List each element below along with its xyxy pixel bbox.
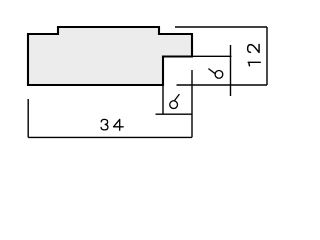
extension line left (34) <box>27 99 29 137</box>
label 34 : digit 3 <box>101 119 108 129</box>
extension line ledge (6 right) <box>193 55 232 57</box>
dimension line 34 <box>28 136 192 138</box>
extension line left (6 bottom) <box>162 86 164 114</box>
dimension line 6 right <box>230 45 232 96</box>
profile cross-section body <box>28 27 192 85</box>
dimension line 12 <box>266 27 268 85</box>
label 6 right (rotated) <box>209 69 223 78</box>
extension line top (12) <box>175 26 267 28</box>
dimension line 6 bottom <box>156 113 193 115</box>
label 12 : digit 1 (rotated) <box>248 62 260 66</box>
label 12 : digit 2 (rotated) <box>248 44 259 52</box>
label 34 : digit 4 <box>114 119 124 130</box>
extension line right (34 / 6 bottom) <box>191 70 193 137</box>
extension line bottom right (12) <box>177 84 268 86</box>
label 6 bottom <box>170 95 179 109</box>
